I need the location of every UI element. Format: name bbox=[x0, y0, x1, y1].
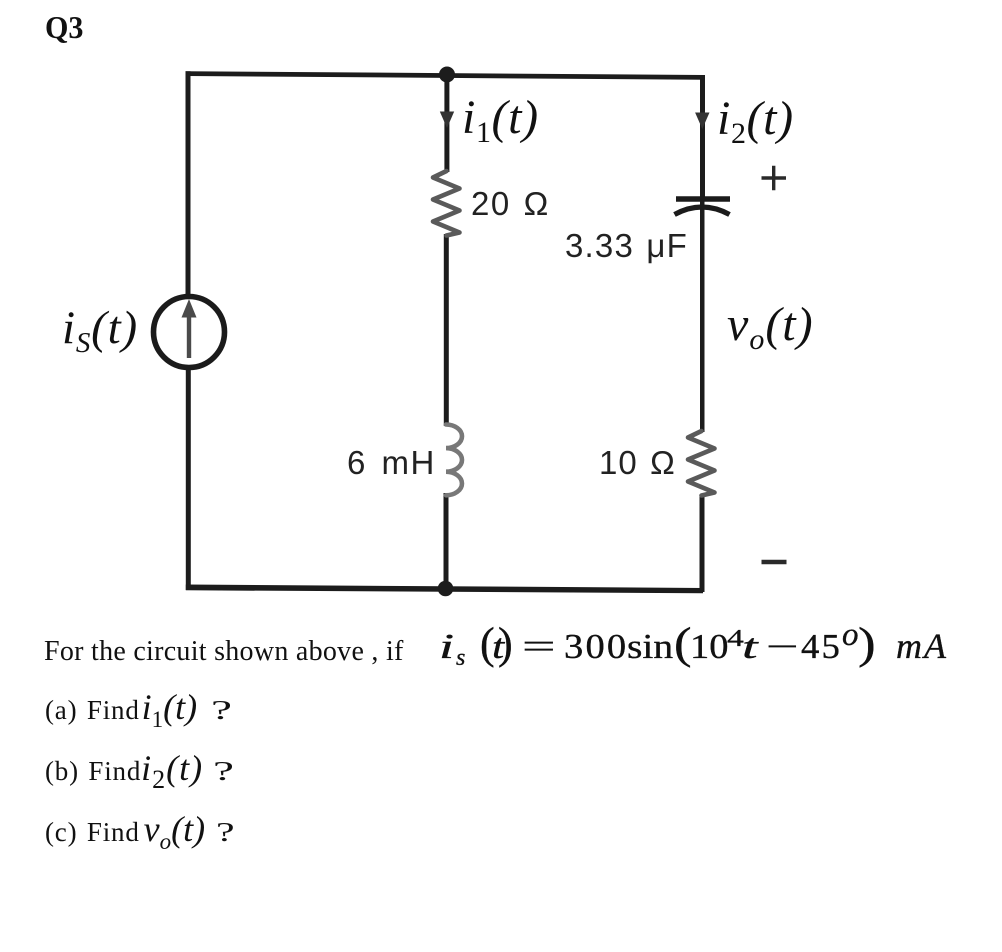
resistor R 10 ohm (zigzag, right branch) bbox=[688, 431, 715, 496]
node: top junction dot bbox=[439, 67, 455, 83]
label i1(t) for middle branch current bbox=[462, 94, 539, 148]
wire: bottom rail from bottom-left corner to bottom-right corner bbox=[186, 585, 703, 594]
wire: middle branch middle segment (20-ohm resistor down to inductor) bbox=[444, 234, 449, 426]
equation is(t) = 300 sin(10^4 t - 45deg) mA bbox=[0, 0, 1, 1]
value label 3.33 uF bbox=[565, 229, 688, 262]
wire: right rail lower segment (10-ohm resistor down to bottom-right corner) bbox=[700, 495, 705, 592]
question (a) bbox=[45, 689, 224, 731]
label is(t) for current source bbox=[62, 305, 138, 358]
wire: middle branch lower segment (inductor down to bottom node) bbox=[444, 493, 449, 590]
inductor L 6 mH (three humps, middle branch) bbox=[446, 425, 462, 496]
wire: left rail upper segment (top-left corner down to current source) bbox=[186, 71, 191, 296]
label i2(t) for right branch current bbox=[717, 95, 794, 149]
resistor R 20 ohm (zigzag, middle branch) bbox=[433, 171, 460, 236]
label vo(t) output voltage bbox=[727, 301, 814, 355]
wire: middle branch upper segment (top node down to 20-ohm resistor) bbox=[444, 74, 449, 172]
value label 6 mH bbox=[347, 446, 436, 479]
capacitor C 3.33 uF (straight top plate, curved bottom plate) bbox=[675, 199, 731, 215]
polarity plus sign for vo(t) bbox=[762, 166, 787, 190]
current source IS (circle with upward arrow) bbox=[154, 297, 225, 368]
wire: left rail lower segment (current source down to bottom-left corner) bbox=[186, 368, 191, 590]
value label 10 ohm bbox=[599, 446, 676, 479]
question (c) bbox=[45, 811, 228, 853]
wire: right rail upper segment (top-right corner down to capacitor top plate) bbox=[700, 75, 705, 199]
node: bottom junction dot bbox=[438, 581, 454, 597]
problem statement text bbox=[44, 638, 404, 666]
value label 20 ohm bbox=[471, 187, 550, 220]
polarity minus sign for vo(t) bbox=[762, 560, 787, 564]
wire: top rail from top-left corner to top-right corner bbox=[186, 71, 704, 80]
wire: right branch segment through capacitor to 10-ohm resistor bbox=[700, 199, 705, 432]
title Q3 bbox=[45, 11, 83, 43]
arrow: i1 current direction (down the middle branch) bbox=[440, 112, 454, 129]
question (b) bbox=[45, 750, 226, 793]
arrow: i2 current direction (down the right branch) bbox=[695, 113, 709, 130]
